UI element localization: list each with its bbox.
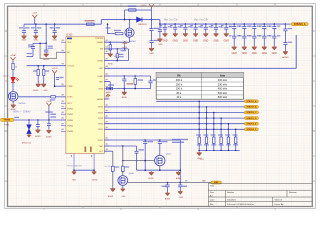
resistor R112 — [117, 48, 119, 50]
svg-text:AGND: AGND — [148, 177, 154, 180]
svg-text:STB3V3_C: STB3V3_C — [246, 112, 257, 114]
netlabel STB3 — [244, 117, 258, 120]
svg-text:2N7002: 2N7002 — [19, 103, 27, 105]
svg-text:TSNS: TSNS — [67, 86, 73, 88]
svg-text:STB3V3_E: STB3V3_E — [246, 123, 257, 125]
pin TMP — [104, 145, 109, 147]
wire: ladder drop 4 — [220, 118, 222, 137]
capacitor CB2 — [174, 23, 176, 25]
wire: lower comp rail — [107, 88, 151, 90]
resistor R121 — [122, 145, 124, 147]
ground — [283, 51, 288, 55]
capacitor C122 — [136, 146, 138, 151]
netlabel BAT — [211, 181, 222, 184]
svg-text:100 k: 100 k — [176, 87, 183, 91]
svg-text:400 kHz: 400 kHz — [218, 87, 228, 91]
wire: STB4 net — [104, 123, 244, 125]
svg-text:D:\Lavori\..\TPS61196.SchDoc: D:\Lavori\..\TPS61196.SchDoc — [227, 204, 254, 206]
ground (up) — [124, 45, 126, 49]
svg-text:STB3V3_A: STB3V3_A — [246, 100, 257, 103]
ground — [165, 192, 170, 196]
transistor Q100 — [118, 176, 128, 186]
wire: main 3V3 rail — [24, 23, 101, 25]
svg-text:GND: GND — [34, 40, 39, 42]
ground — [224, 33, 229, 37]
ground — [242, 46, 247, 50]
svg-text:PGND: PGND — [97, 60, 103, 62]
capacitor CB5 — [205, 23, 207, 25]
svg-text:+3V3F: +3V3F — [46, 101, 52, 103]
svg-text:GND: GND — [22, 40, 27, 42]
ground — [262, 46, 267, 50]
svg-text:200 k: 200 k — [176, 82, 183, 86]
pin STB2 — [104, 112, 109, 114]
svg-text:STB4: STB4 — [98, 124, 103, 126]
svg-text:AGND: AGND — [122, 96, 128, 99]
ground — [157, 38, 162, 42]
capacitor C108 — [37, 119, 39, 121]
wire: STB2 net — [104, 112, 244, 114]
capacitor CB13b — [283, 43, 287, 45]
svg-text:200 kHz: 200 kHz — [218, 82, 228, 86]
capacitor C111 — [149, 41, 153, 43]
netlabel STB1 — [244, 105, 258, 108]
ground — [121, 188, 125, 192]
wire: STB3 net — [104, 117, 244, 119]
svg-text:PGND: PGND — [108, 64, 114, 66]
transistor Q110 — [125, 28, 134, 37]
svg-text:GND: GND — [224, 41, 229, 43]
svg-text:GND: GND — [262, 53, 267, 55]
svg-text:GND: GND — [158, 44, 163, 46]
svg-text:Sheet of: Sheet of — [275, 198, 283, 201]
capacitor C115 — [150, 76, 152, 81]
svg-text:500 kHz: 500 kHz — [218, 91, 228, 95]
svg-text:GND: GND — [272, 53, 277, 55]
capacitor CB1 — [164, 23, 166, 25]
ground — [44, 53, 49, 57]
svg-text:Rt: Rt — [177, 74, 180, 78]
resistor RL6 — [235, 137, 237, 144]
pin CT/CLK — [61, 65, 66, 67]
ground — [108, 53, 113, 57]
svg-text:ISNS: ISNS — [98, 88, 103, 90]
ground — [36, 83, 41, 87]
resistor RL1 — [198, 137, 200, 144]
ground — [163, 33, 168, 37]
capacitor CB8b — [232, 36, 236, 38]
svg-text:GND: GND — [242, 53, 247, 55]
capacitor C121 — [159, 139, 161, 141]
capacitor CB4 — [195, 23, 197, 25]
svg-text:CT/CLK: CT/CLK — [67, 66, 74, 68]
pin STB3 — [104, 117, 109, 119]
capacitor CB8a — [233, 23, 235, 25]
ground — [92, 171, 97, 175]
wire: ladder drop 5 — [227, 124, 229, 137]
ground — [41, 83, 46, 87]
svg-text:Q100: Q100 — [129, 173, 135, 175]
svg-text:STB3: STB3 — [98, 118, 103, 120]
svg-text:GND: GND — [179, 197, 184, 199]
wire: ladder common — [198, 149, 240, 151]
wire: tap to second cap row — [45, 23, 47, 25]
svg-text:GND: GND — [149, 53, 154, 55]
svg-text:STB3V3_A: STB3V3_A — [294, 23, 306, 26]
resistor RL3 — [213, 137, 215, 144]
pin REF — [104, 81, 109, 83]
wire: drain — [129, 20, 131, 28]
pin DUTY — [61, 102, 66, 104]
resistor R115 UGATE pulldown — [110, 41, 112, 43]
ground — [198, 150, 200, 151]
capacitor CB6 — [215, 23, 217, 25]
LED DL100 — [11, 77, 19, 82]
power port +VDD — [52, 70, 57, 73]
svg-text:BZX84 TLV: BZX84 TLV — [22, 143, 32, 145]
ground — [110, 188, 115, 192]
resistor R111 — [115, 32, 123, 34]
svg-text:File:: File: — [210, 204, 214, 206]
resistor R113 — [134, 75, 136, 77]
resistor R110 — [129, 9, 136, 11]
svg-text:SW: SW — [100, 49, 103, 51]
svg-text:UGATE: UGATE — [97, 41, 104, 44]
svg-text:AGND: AGND — [35, 135, 41, 138]
svg-text:TPS61196: TPS61196 — [95, 38, 103, 40]
svg-text:90Hz ~ 10kHz: 90Hz ~ 10kHz — [13, 110, 31, 114]
svg-text:Drawn By:: Drawn By: — [275, 204, 285, 206]
power port +VDD — [149, 4, 154, 7]
netlabel STB2 — [244, 111, 258, 114]
svg-text:100 kHz: 100 kHz — [218, 78, 228, 82]
wire: TMP net — [104, 145, 136, 147]
svg-text:STB3V3_F: STB3V3_F — [246, 129, 257, 131]
svg-text:GND: GND — [193, 41, 198, 43]
svg-text:AGND: AGND — [33, 89, 39, 92]
pin PWM3 — [61, 119, 66, 121]
transistor Q101 — [155, 155, 165, 165]
svg-text:STB1: STB1 — [98, 107, 103, 109]
resistor RL4 — [220, 137, 222, 144]
capacitor CB12a — [274, 23, 276, 25]
pin PWM5 — [61, 130, 66, 132]
pin STBY — [104, 139, 109, 141]
netlabel STB0 — [244, 100, 258, 103]
svg-text:IC100: IC100 — [66, 35, 73, 37]
svg-text:+VBAT: +VBAT — [10, 54, 17, 57]
wire: Rt select net — [156, 100, 245, 102]
resistor R120 — [112, 151, 114, 166]
transistor Q102 — [8, 92, 18, 102]
wire: bottom pins — [74, 169, 94, 171]
ground — [178, 191, 183, 195]
resistor R102 — [37, 65, 39, 67]
capacitor C101 — [23, 24, 25, 31]
capacitor CB10a — [254, 23, 256, 25]
pin VDD — [61, 41, 66, 43]
svg-text:PWM1: PWM1 — [4, 120, 11, 122]
table Rt / fsw — [156, 72, 243, 99]
wire: COMP network — [104, 75, 150, 77]
wire: battery sense — [128, 182, 211, 184]
wire: BO gray step — [40, 43, 66, 58]
svg-text:AGND: AGND — [97, 98, 103, 101]
pin ISNS — [104, 88, 109, 90]
capacitor CB11b — [262, 36, 266, 38]
svg-text:PWM5: PWM5 — [67, 131, 73, 133]
svg-text:AGND: AGND — [282, 56, 289, 59]
wire: REF pin — [104, 81, 110, 83]
svg-text:TPS61196EVM: TPS61196EVM — [67, 165, 82, 167]
wire: ladder drop 6 — [235, 129, 237, 137]
ground — [149, 171, 154, 175]
pin pLDO bottom — [73, 154, 75, 171]
svg-text:MBR0520: MBR0520 — [138, 24, 146, 26]
netlabel STB5 — [244, 128, 258, 131]
svg-text:AGND: AGND — [92, 179, 98, 182]
wire: Q102 source to ground — [12, 101, 14, 104]
svg-text:800 kHz: 800 kHz — [218, 95, 228, 99]
ground — [149, 47, 154, 51]
svg-text:GND: GND — [122, 196, 127, 198]
svg-text:GND: GND — [252, 53, 257, 55]
capacitor C112 — [159, 23, 161, 25]
svg-text:Q101: Q101 — [166, 153, 172, 155]
note resistor values — [172, 139, 188, 140]
power port VIN — [32, 15, 37, 18]
capacitor CB9b — [242, 36, 246, 38]
capacitor CB3 — [185, 23, 187, 25]
svg-text:VDD: VDD — [67, 42, 72, 44]
ground — [193, 33, 198, 37]
ground — [214, 33, 219, 37]
svg-text:5/10/2021: 5/10/2021 — [227, 199, 237, 201]
svg-text:400 k: 400 k — [176, 78, 183, 82]
wire: OUT net — [104, 150, 113, 152]
svg-text:STB5: STB5 — [98, 129, 103, 131]
svg-text:PWM2: PWM2 — [67, 114, 73, 116]
pin OUT — [104, 150, 109, 152]
resistor R_series in rail — [87, 23, 95, 25]
capacitor CB12b — [272, 36, 276, 38]
wire: PWM input — [14, 119, 66, 121]
title block — [208, 183, 312, 206]
diode D110 — [137, 17, 142, 22]
svg-text:DL100: DL100 — [3, 75, 8, 77]
IC U100 TPS61196 — [66, 37, 104, 154]
capacitor C123 — [167, 182, 169, 184]
pin — [104, 52, 109, 54]
svg-text:SYNC: SYNC — [67, 97, 73, 99]
ground — [232, 46, 237, 50]
svg-text:80 k: 80 k — [176, 91, 182, 95]
svg-text:PWM1: PWM1 — [4, 125, 9, 127]
svg-text:COMP: COMP — [97, 76, 103, 78]
TVS D100 — [28, 119, 30, 121]
pin STB1 — [104, 106, 109, 108]
svg-text:PWM1: PWM1 — [67, 108, 73, 110]
svg-text:STB2: STB2 — [98, 112, 103, 114]
svg-text:DUTY: DUTY — [67, 103, 73, 105]
ground — [123, 89, 125, 91]
svg-text:GND: GND — [52, 40, 57, 42]
wire: C104 lower stub — [27, 55, 34, 57]
svg-text:Max Out C0b: Max Out C0b — [164, 19, 179, 22]
ground — [33, 35, 38, 39]
capacitor C107 — [56, 78, 59, 80]
ground — [252, 46, 257, 50]
capacitor C105 — [45, 43, 47, 50]
resistor RL5 — [227, 137, 229, 144]
wire: STB5 net — [104, 128, 244, 130]
capacitor C104 — [32, 43, 34, 46]
wire: STB1 net — [104, 106, 244, 108]
capacitor CB11a — [264, 23, 266, 25]
wire: ladder drop 1 — [198, 101, 200, 137]
power port +VBAT — [11, 57, 16, 60]
pin STB4 — [104, 123, 109, 125]
capacitor C102 — [35, 23, 37, 25]
svg-text:AGND: AGND — [176, 177, 182, 180]
svg-text:PWM3: PWM3 — [67, 120, 73, 122]
capacitor CB13a — [285, 23, 287, 25]
wire: bottom of cluster — [137, 169, 181, 171]
ground — [52, 35, 57, 39]
ground — [22, 35, 27, 39]
svg-text:GND: GND — [72, 180, 77, 182]
resistor R103 — [43, 65, 45, 67]
svg-text:Revision: Revision — [289, 192, 297, 194]
ground (AGND pin up) — [104, 98, 108, 100]
svg-text:STB3V3_B: STB3V3_B — [246, 107, 257, 109]
ground — [27, 134, 31, 137]
wire: SW sense loop — [104, 48, 128, 50]
ground — [46, 129, 51, 133]
wire: source to UGATE — [129, 37, 131, 42]
capacitor CB10b — [252, 36, 256, 38]
ground — [35, 129, 40, 133]
capacitor C120 — [144, 139, 146, 141]
netlabel STB3V3_A — [285, 23, 290, 25]
pin PWM2 — [61, 113, 66, 115]
svg-text:PWM4: PWM4 — [67, 126, 73, 128]
resistor RL2 — [205, 137, 207, 144]
svg-text:Number: Number — [227, 192, 234, 194]
capacitor C114 — [124, 75, 126, 77]
capacitor C103 — [54, 23, 56, 25]
wire: STBY net — [104, 139, 180, 141]
wire: Q101 source — [159, 166, 161, 170]
wire: ladder drop 2 — [206, 107, 208, 137]
pin STB5 — [104, 128, 109, 130]
svg-text:AGND: AGND — [108, 195, 114, 198]
wire: rail step-up — [100, 20, 102, 25]
netlabel PWM1 — [1, 118, 15, 121]
wire: CT/CLK net — [27, 65, 66, 67]
resistor R101 — [51, 96, 56, 98]
wire: ladder drop 3 — [213, 113, 215, 138]
svg-text:GND: GND — [162, 41, 167, 43]
pin GND bottom — [93, 154, 95, 171]
pin SYNC — [61, 96, 66, 98]
ground — [203, 33, 208, 37]
wire: TOVB net — [55, 85, 66, 87]
wire: Q100 source gnd — [122, 185, 124, 188]
resistor R100 — [12, 64, 14, 70]
svg-text:GND: GND — [173, 41, 178, 43]
svg-text:Max Out C0b: Max Out C0b — [194, 19, 209, 22]
capacitor CB9a — [244, 23, 246, 25]
svg-text:+VDD: +VDD — [52, 68, 58, 70]
svg-text:40 k: 40 k — [176, 95, 182, 99]
pin BO — [61, 51, 66, 53]
pin PGND — [104, 60, 109, 62]
svg-text:STB3V3_D: STB3V3_D — [246, 118, 257, 120]
wire: OVP feedback — [104, 67, 296, 69]
svg-text:Si2301: Si2301 — [130, 41, 137, 43]
capacitor CB7 — [225, 23, 227, 25]
resistor R114 — [107, 87, 113, 89]
pin OVP — [104, 67, 109, 69]
ground — [272, 46, 277, 50]
capacitor C109 — [48, 119, 50, 121]
capacitor C124 — [180, 182, 182, 184]
wire: Q101 gate — [123, 160, 155, 162]
wire: rail step-down to cap bank — [159, 20, 161, 25]
svg-text:+VDD: +VDD — [140, 5, 146, 7]
svg-text:fsw: fsw — [220, 74, 226, 78]
svg-text:GND: GND — [213, 41, 218, 43]
ground — [176, 171, 181, 175]
svg-text:GND: GND — [203, 41, 208, 43]
pin SW — [104, 48, 109, 50]
svg-text:Date:: Date: — [210, 198, 215, 201]
svg-text:STBY: STBY — [98, 140, 104, 142]
pin COMP — [104, 75, 109, 77]
svg-text:AGND: AGND — [46, 135, 52, 138]
svg-text:1k: 1k — [15, 67, 17, 69]
ground — [11, 104, 16, 108]
pin AGND — [104, 98, 109, 100]
wire: gate net to block — [18, 96, 51, 98]
wire: top loop — [125, 9, 152, 11]
svg-text:Idx VGate: Idx VGate — [105, 165, 113, 168]
svg-text:GND: GND — [44, 90, 49, 92]
svg-text:GND: GND — [232, 53, 237, 55]
pin TSNS — [61, 85, 66, 87]
pin UGATE — [104, 41, 109, 43]
power port +3V3F — [46, 103, 51, 106]
ground — [72, 171, 77, 175]
svg-text:AGND: AGND — [165, 198, 171, 201]
svg-text:AGND: AGND — [106, 91, 112, 94]
svg-text:GND: GND — [183, 41, 188, 43]
pin PWM4 — [61, 125, 66, 127]
ground — [183, 33, 188, 37]
netlabel STB4 — [244, 122, 258, 125]
ground — [173, 33, 178, 37]
pin PWM1 — [61, 108, 66, 110]
capacitor C110 — [151, 20, 153, 29]
